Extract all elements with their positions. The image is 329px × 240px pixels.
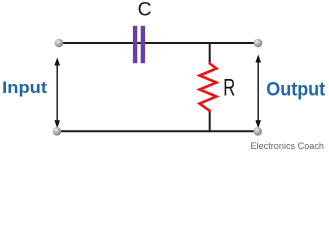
wire resistor branch top <box>209 43 211 65</box>
output measurement arrow (double-headed) <box>255 55 261 129</box>
input measurement arrow (double-headed) <box>54 58 60 129</box>
node bottom-right <box>253 127 262 136</box>
wire bottom (common rail) <box>57 130 258 132</box>
capacitor C <box>133 26 145 63</box>
svg-text:C: C <box>138 0 152 20</box>
wire resistor branch bottom <box>209 110 211 132</box>
svg-text:Output: Output <box>266 78 325 100</box>
resistor R <box>200 64 217 111</box>
svg-text:R: R <box>223 74 235 101</box>
node top-right <box>254 39 263 48</box>
node top-left <box>55 39 64 48</box>
svg-text:Electronics Coach: Electronics Coach <box>251 141 325 152</box>
wire top (input to output rail) <box>58 42 258 44</box>
svg-text:Input: Input <box>2 78 47 97</box>
node bottom-left <box>53 127 62 136</box>
